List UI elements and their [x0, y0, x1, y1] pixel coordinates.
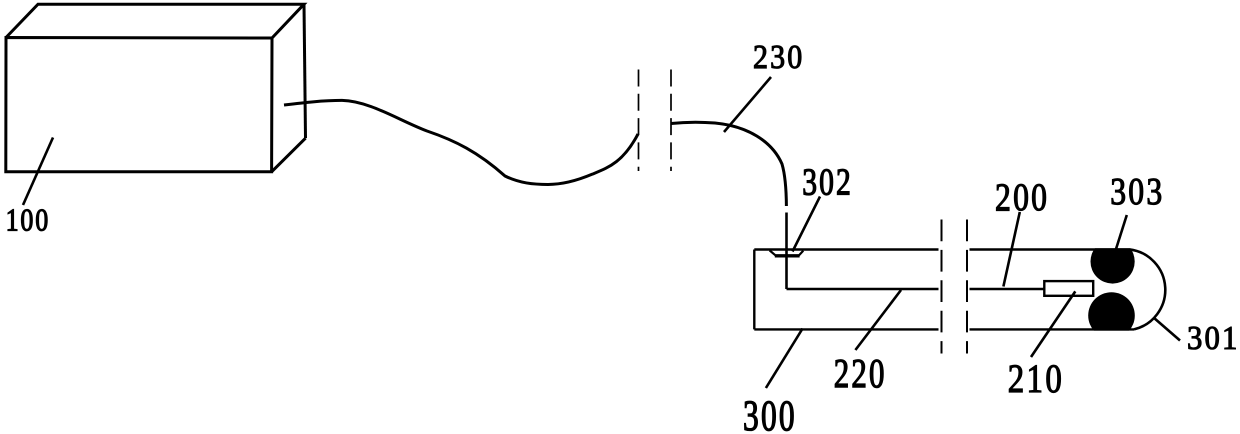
rounded distal tip 301 arc — [1130, 249, 1166, 329]
handpiece body 300: top edge — [754, 248, 938, 250]
console box 100: top face — [6, 4, 304, 38]
leader line to label 302 — [793, 197, 821, 252]
cable 230: segment after break curving down to handpiece — [671, 122, 786, 206]
svg-text:303: 303 — [1110, 170, 1164, 212]
svg-text:302: 302 — [802, 161, 853, 204]
handpiece body 300: bottom edge right of break — [970, 328, 1135, 330]
handpiece body 300: top edge right of break — [970, 248, 1130, 250]
inner cable 220 right of break — [970, 288, 1045, 290]
sensor element 210 rectangle — [1044, 281, 1093, 296]
inner cable 220 running inside body — [787, 288, 939, 290]
console box 100: right bottom diagonal edge — [272, 138, 306, 172]
handpiece body 300: bottom edge — [754, 328, 938, 330]
leader line to label 200 — [1003, 212, 1019, 287]
lower ball electrode 303 (clipped at tube wall) — [1088, 292, 1135, 339]
leader line to label 100 — [23, 138, 53, 206]
entry seat notch 302: thick bottom — [775, 255, 800, 258]
break mark: left dashed line of second break — [941, 220, 943, 354]
break mark: right dashed line of first break — [670, 70, 672, 172]
upper ball electrode 303 (clipped at tube wall) — [1091, 239, 1135, 283]
svg-text:100: 100 — [6, 203, 50, 238]
svg-text:230: 230 — [753, 38, 804, 75]
handpiece body 300: left edge — [753, 250, 755, 330]
svg-text:210: 210 — [1008, 356, 1064, 401]
leader line to label 230 — [724, 77, 771, 132]
leader line to label 300 — [766, 329, 803, 389]
console box 100: right back edge — [304, 4, 306, 138]
svg-text:300: 300 — [743, 392, 797, 434]
leader line to label 210 — [1031, 291, 1075, 357]
cable 230: vertical segment entering notch 302 — [785, 213, 788, 290]
svg-text:200: 200 — [995, 176, 1049, 219]
leader line to label 301 — [1154, 318, 1181, 341]
console box 100: front face — [6, 38, 272, 172]
leader line to label 220 — [855, 290, 901, 350]
entry seat notch 302: trapezoid below top edge — [770, 250, 804, 255]
cable 230: segment from box to first break — [284, 100, 638, 184]
leader line to label 303 — [1116, 215, 1127, 250]
break mark: right dashed line of second break — [966, 220, 968, 354]
svg-text:220: 220 — [834, 351, 887, 396]
break mark: left dashed line of first break — [638, 70, 640, 172]
svg-text:301: 301 — [1187, 319, 1240, 357]
